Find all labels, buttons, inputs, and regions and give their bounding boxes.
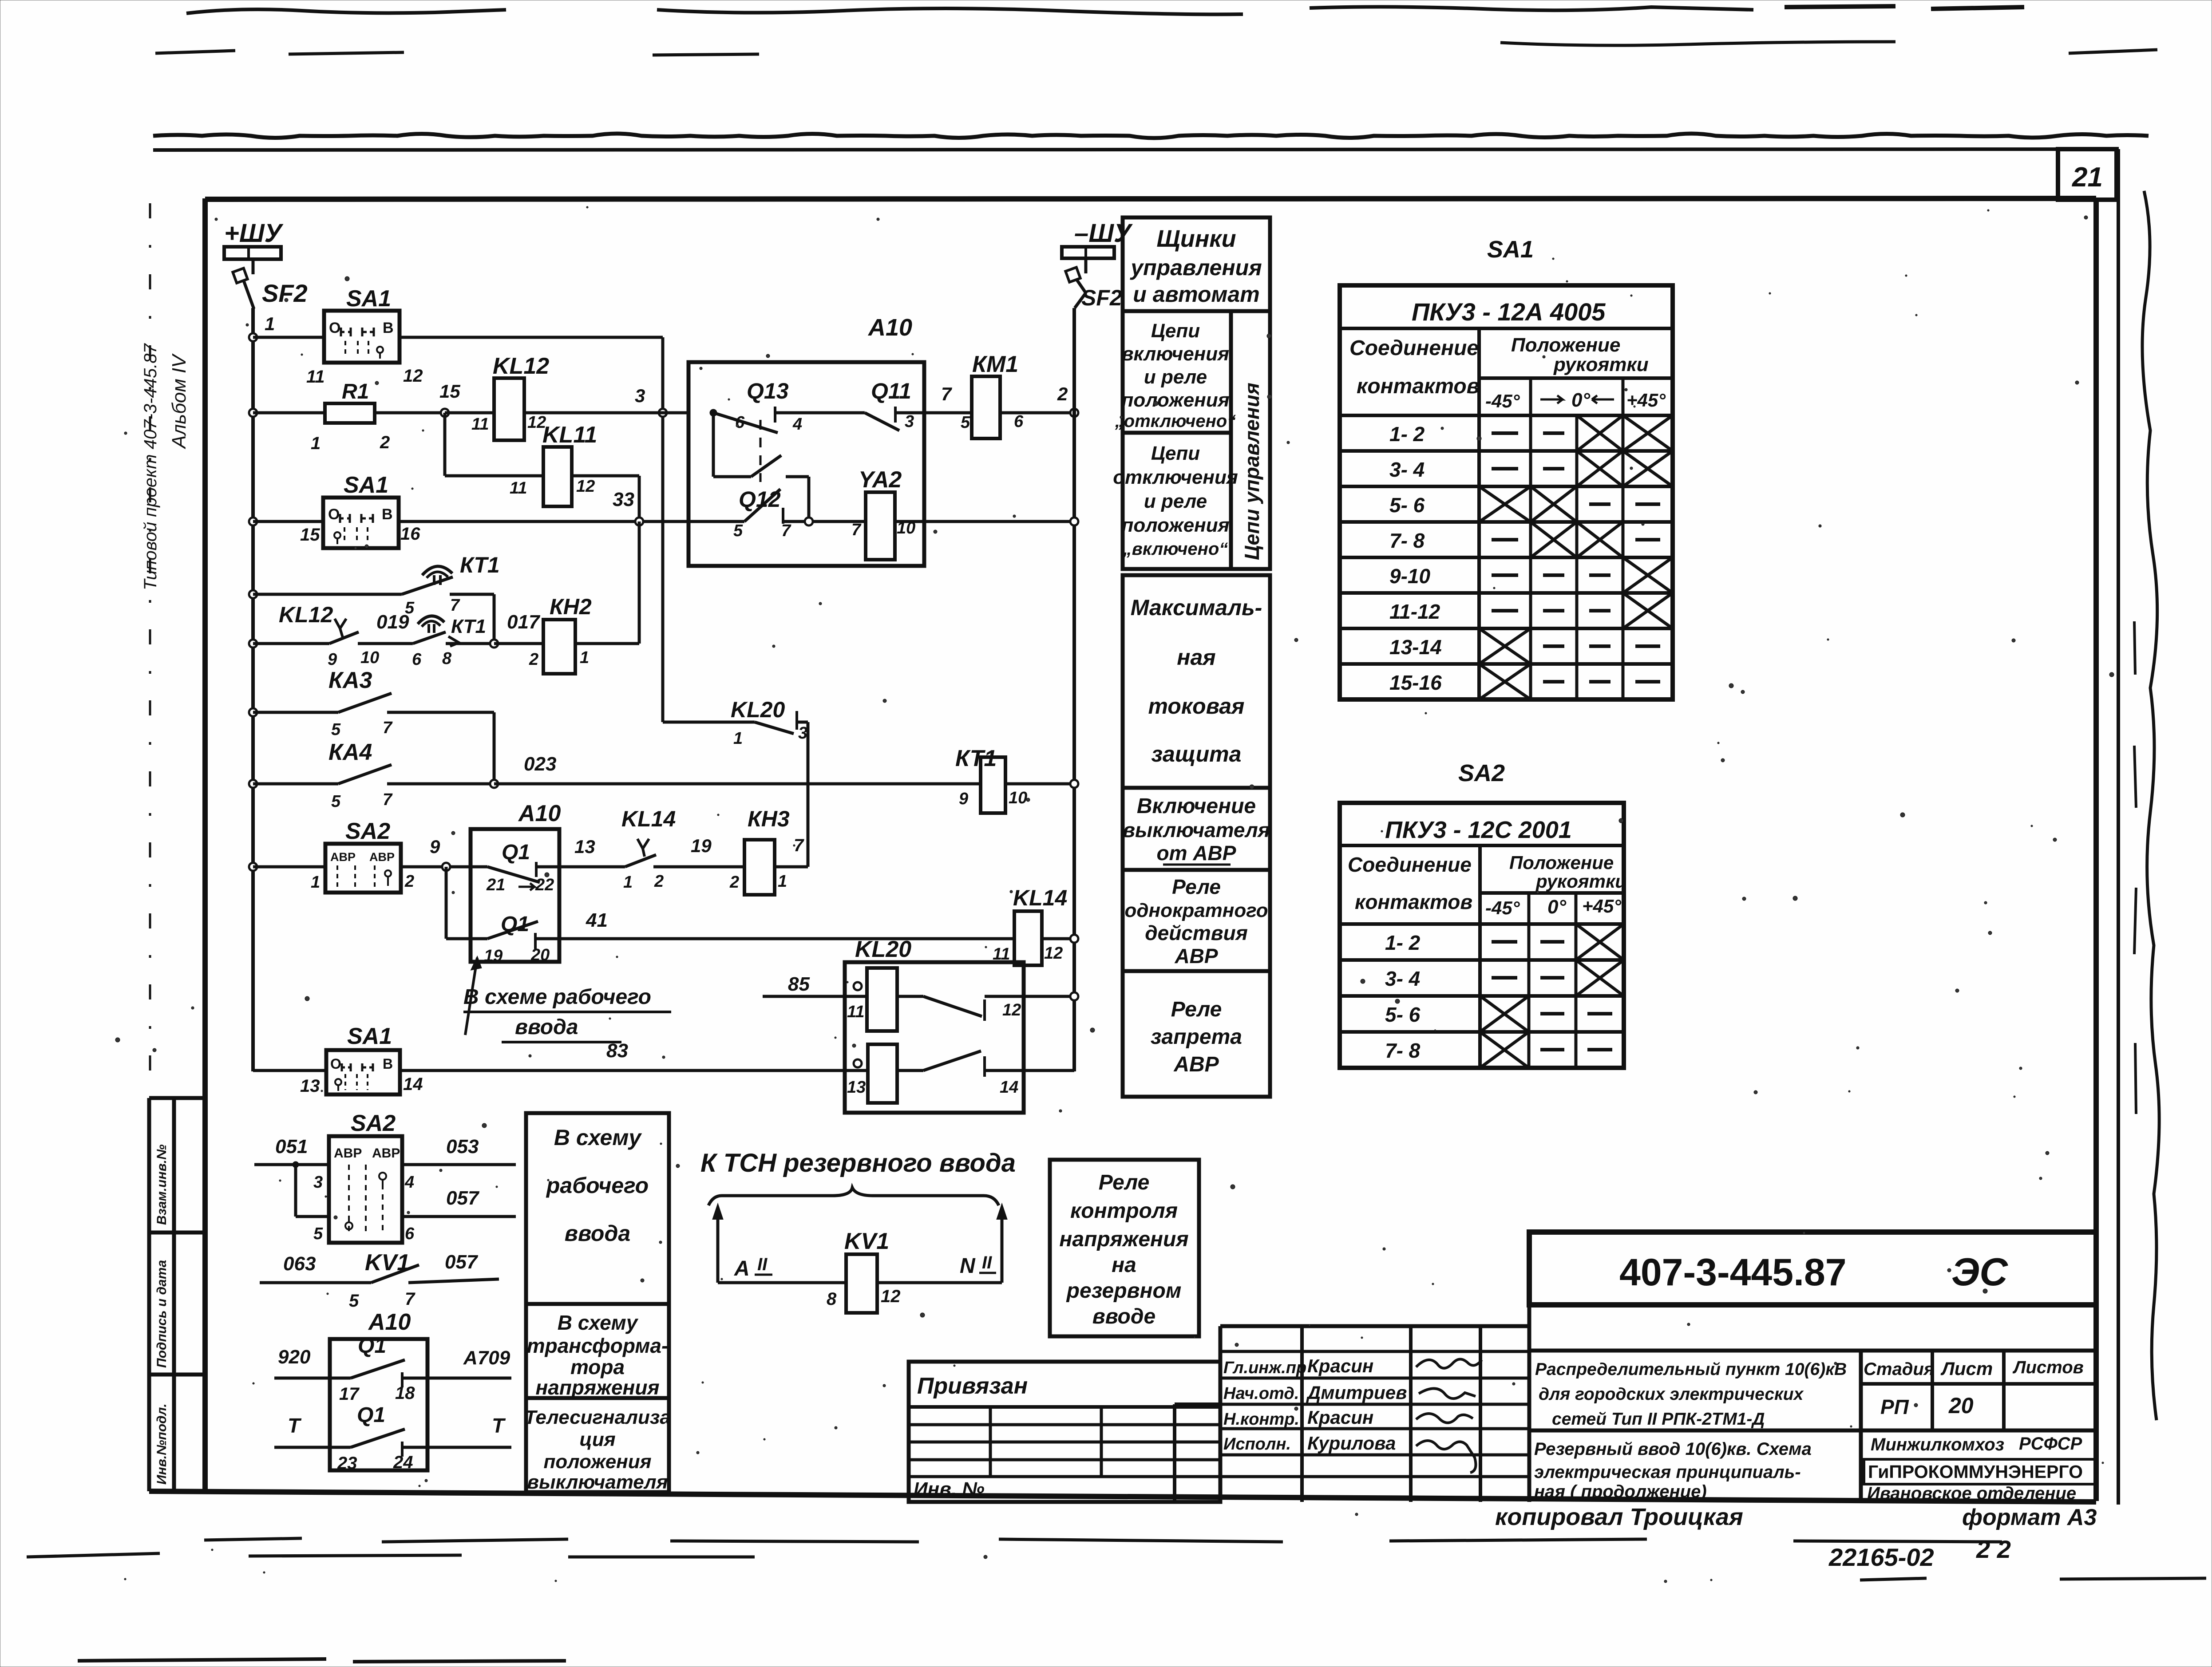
svg-text:КТ1: КТ1: [460, 553, 500, 577]
svg-text:11: 11: [847, 1003, 864, 1021]
unit A10 box second: [471, 829, 559, 962]
svg-text:8: 8: [827, 1289, 837, 1309]
svg-text:+45°: +45°: [1582, 896, 1622, 916]
coil KL20 lower (13): [868, 1044, 897, 1103]
svg-text:19: 19: [484, 947, 503, 965]
svg-text:0°: 0°: [1571, 389, 1590, 411]
wire to KH2: [494, 642, 543, 645]
switch SA1 contacts 11-12: [324, 311, 400, 363]
svg-text:15: 15: [300, 525, 320, 545]
svg-text:18: 18: [395, 1383, 415, 1403]
right bus vertical: [1072, 308, 1076, 1071]
svg-text:II: II: [982, 1253, 992, 1272]
svg-text:Q1: Q1: [358, 1334, 386, 1358]
mid column box Rele zapreta AVR: [1123, 971, 1270, 1097]
svg-text:для городских электрических: для городских электрических: [1539, 1385, 1804, 1404]
svg-text:положения: положения: [543, 1451, 651, 1473]
svg-text:положения: положения: [1121, 389, 1229, 411]
table SA1 row 1-2: [1340, 449, 1673, 453]
svg-text:II: II: [757, 1255, 768, 1274]
svg-text:KL20: KL20: [731, 697, 785, 722]
svg-text:формат А3: формат А3: [1962, 1505, 2097, 1530]
bus bar +ShU: [224, 247, 281, 259]
junction 051 leg: [293, 1161, 299, 1168]
svg-text:13: 13: [300, 1076, 320, 1096]
wire Q13 to Q11: [775, 411, 865, 415]
svg-text:Лист: Лист: [1940, 1358, 1993, 1379]
svg-text:5: 5: [733, 521, 743, 540]
svg-text:Соединение: Соединение: [1348, 853, 1472, 876]
svg-text:2 2: 2 2: [1976, 1535, 2011, 1563]
svg-text:2: 2: [729, 873, 739, 892]
row5 wire to KL12 contact: [253, 642, 329, 645]
svg-text:Цепи управления: Цепи управления: [1240, 383, 1263, 560]
relay coil KL11: [543, 447, 572, 506]
node row8 at bus: [249, 863, 257, 871]
vertical wire KH3/KL20 contact: [807, 722, 810, 867]
svg-text:ПКУ3 - 12А 4005: ПКУ3 - 12А 4005: [1412, 298, 1606, 326]
svg-text:KL12: KL12: [279, 602, 333, 627]
svg-text:Q12: Q12: [739, 487, 781, 512]
svg-text:контактов: контактов: [1355, 890, 1472, 913]
svg-text:Q1: Q1: [502, 841, 530, 864]
svg-text:057: 057: [445, 1251, 479, 1273]
time relay coil KT1: [981, 757, 1005, 813]
svg-text:5: 5: [313, 1225, 323, 1243]
current relay contact KA4: [253, 782, 338, 786]
circuit breaker SF2 right: [1065, 267, 1080, 282]
wire KH3 right to vertical: [775, 865, 808, 869]
svg-text:7- 8: 7- 8: [1385, 1039, 1421, 1062]
indicating relay KH3: [744, 840, 775, 895]
svg-text:12: 12: [403, 366, 423, 386]
mid column box Tsepi vklyucheniya: [1123, 311, 1231, 433]
svg-text:A10: A10: [518, 801, 561, 826]
svg-text:3: 3: [313, 1173, 323, 1192]
svg-text:Реле: Реле: [1099, 1171, 1150, 1194]
table SA1 row 7-8: [1340, 556, 1673, 559]
svg-text:А: А: [734, 1257, 750, 1280]
svg-text:11-12: 11-12: [1389, 600, 1440, 623]
node row7 at bus: [249, 780, 257, 788]
voltage relay coil KV1: [846, 1254, 877, 1313]
wire KM1 to node 2: [1000, 411, 1074, 415]
signatures: [1416, 1359, 1482, 1368]
text box Telesignalizatsiya: [526, 1398, 669, 1492]
leg node9 down to row9: [445, 867, 448, 939]
svg-text:SA2: SA2: [1458, 760, 1505, 786]
node row6 at bus: [249, 708, 257, 716]
svg-text:Минжилкомхоз: Минжилкомхоз: [1871, 1435, 2004, 1454]
svg-text:22: 22: [535, 876, 554, 894]
table SA1: [1340, 285, 1673, 699]
svg-text:5: 5: [349, 1291, 359, 1311]
arrow left A-II: [716, 1213, 720, 1283]
breaker aux contact Q13: [710, 409, 717, 416]
svg-text:7: 7: [794, 836, 804, 855]
svg-text:SA1: SA1: [347, 1023, 392, 1049]
vertical wire row6 to row7: [493, 712, 496, 784]
svg-text:A10: A10: [867, 314, 912, 341]
row11 from bus to SA1 13-14: [253, 1069, 326, 1072]
svg-text:16: 16: [400, 524, 420, 544]
title block privyazan box: [909, 1362, 1220, 1502]
svg-text:Инв. №: Инв. №: [914, 1478, 985, 1500]
wire YA2 to right bus: [895, 520, 1074, 523]
mid column box Tsepi otklyucheniya: [1123, 433, 1231, 569]
svg-text:рукоятки: рукоятки: [1535, 871, 1626, 892]
svg-text:„включено“: „включено“: [1123, 539, 1228, 559]
svg-text:Гл.инж.пр: Гл.инж.пр: [1223, 1359, 1306, 1377]
wire KL12 to A10, net 3: [524, 411, 689, 415]
svg-text:положения: положения: [1121, 514, 1229, 536]
title block empty band: [1529, 1305, 2096, 1351]
svg-text:Соединение: Соединение: [1349, 336, 1479, 360]
svg-text:017: 017: [507, 611, 541, 633]
svg-text:8: 8: [442, 649, 452, 668]
wire -ShU to SF2: [1084, 258, 1088, 273]
vertical wire row4 to row5: [493, 594, 496, 644]
svg-text:Распределительный пункт 10(6)к: Распределительный пункт 10(6)кВ: [1535, 1360, 1847, 1379]
Q13 changeover lower throw: [712, 413, 715, 477]
svg-text:83: 83: [606, 1040, 628, 1062]
svg-text:21: 21: [2072, 162, 2103, 193]
breaker aux contact Q12: [689, 520, 744, 523]
wire from +ShU to SF2: [252, 259, 255, 274]
svg-text:запрета: запрета: [1151, 1025, 1242, 1049]
relay contact KL20 (1-3): [663, 721, 755, 724]
svg-text:9: 9: [328, 650, 337, 669]
svg-text:РСФСР: РСФСР: [2019, 1434, 2082, 1454]
svg-text:трансформа-: трансформа-: [527, 1334, 669, 1357]
wire SA2 to node 9: [401, 865, 471, 869]
table SA2: [1340, 803, 1624, 1068]
svg-text:12: 12: [576, 477, 595, 496]
svg-text:19: 19: [691, 835, 712, 856]
wire net 85: [763, 995, 867, 998]
mid column box Maksimalnaya tokovaya zashchita: [1123, 575, 1270, 788]
svg-text:КН3: КН3: [748, 806, 790, 831]
svg-text:и реле: и реле: [1144, 490, 1207, 512]
svg-text:22165-02: 22165-02: [1828, 1543, 1934, 1571]
svg-text:управления: управления: [1129, 255, 1262, 280]
wire R1 to node 15: [375, 411, 445, 415]
branch to relay KL11: [443, 413, 447, 476]
svg-text:Т: Т: [492, 1414, 506, 1437]
svg-text:О: О: [330, 1056, 341, 1072]
svg-text:ГиПРОКОММУНЭНЕРГО: ГиПРОКОММУНЭНЕРГО: [1868, 1462, 2083, 1482]
svg-text:21: 21: [486, 876, 505, 894]
svg-text:Положение: Положение: [1509, 852, 1614, 873]
svg-text:Листов: Листов: [2012, 1358, 2084, 1377]
unit A10 boundary box: [689, 362, 924, 566]
svg-text:11: 11: [510, 479, 527, 498]
svg-text:7: 7: [405, 1289, 415, 1309]
mid column box Rele odnokratnogo deystviya AVR: [1123, 870, 1270, 971]
mechanical link dashed Q13-Q12: [760, 420, 762, 482]
svg-text:ввода: ввода: [565, 1221, 630, 1246]
svg-text:1: 1: [311, 873, 320, 892]
vertical wire V1 row1 to KL20 contact row: [661, 337, 665, 722]
wire KL11 to row3: [572, 474, 639, 478]
latching relay block KL20: [845, 962, 1024, 1113]
indicating relay KH2: [543, 620, 575, 674]
svg-text:7: 7: [383, 790, 393, 809]
svg-text:КМ1: КМ1: [972, 352, 1018, 377]
svg-text:1: 1: [580, 648, 589, 667]
svg-text:15: 15: [439, 381, 460, 402]
current relay contact KA3: [253, 711, 338, 714]
table SA1 row 15-16: [1340, 698, 1673, 701]
svg-text:КТ1: КТ1: [451, 616, 486, 637]
svg-text:-45°: -45°: [1485, 897, 1520, 918]
contact KL20 lower (14): [897, 1069, 923, 1072]
svg-text:В: В: [383, 1056, 393, 1072]
svg-text:019: 019: [376, 611, 409, 633]
svg-text:Взам.инв.№: Взам.инв.№: [154, 1145, 169, 1225]
svg-text:20: 20: [530, 946, 550, 964]
svg-text:057: 057: [446, 1187, 480, 1209]
junction KL11/KH2 leg with row3: [635, 517, 643, 525]
svg-text:13-14: 13-14: [1389, 636, 1442, 659]
svg-text:однократного: однократного: [1124, 900, 1268, 921]
breaker aux contact Q1 (19-20): [471, 937, 487, 940]
svg-text:KL14: KL14: [1013, 885, 1067, 910]
svg-text:ная: ная: [1177, 645, 1215, 670]
svg-text:R1: R1: [342, 380, 369, 403]
svg-text:920: 920: [278, 1346, 311, 1368]
svg-text:14: 14: [1000, 1078, 1018, 1097]
svg-text:14: 14: [403, 1074, 423, 1094]
svg-text:выключателя: выключателя: [1123, 818, 1270, 841]
svg-text:33: 33: [613, 489, 634, 510]
svg-text:О: О: [329, 320, 340, 336]
wire KL20 to right bus: [1024, 995, 1074, 998]
svg-text:7: 7: [851, 521, 862, 539]
svg-text:Альбом IV: Альбом IV: [168, 353, 190, 450]
svg-text:напряжения: напряжения: [535, 1376, 659, 1399]
switch SA1 contacts 15-16 row3: [253, 520, 323, 523]
svg-text:В: В: [383, 320, 394, 336]
svg-text:24: 24: [393, 1453, 413, 1472]
svg-text:13: 13: [847, 1078, 866, 1097]
svg-text:10: 10: [1009, 789, 1027, 807]
svg-text:KL11: KL11: [542, 422, 597, 448]
svg-text:Включение: Включение: [1137, 794, 1256, 818]
svg-text:выключателя: выключателя: [527, 1471, 668, 1493]
svg-text:4: 4: [404, 1173, 414, 1192]
svg-text:KL14: KL14: [621, 806, 676, 831]
relay coil KL12: [445, 411, 494, 415]
svg-text:6: 6: [735, 413, 745, 432]
svg-text:Красин: Красин: [1307, 1407, 1373, 1428]
svg-text:Резервный ввод 10(6)кв. Схема: Резервный ввод 10(6)кв. Схема: [1534, 1439, 1812, 1459]
svg-text:+ШУ: +ШУ: [224, 219, 284, 248]
svg-text:3- 4: 3- 4: [1389, 458, 1425, 481]
row1 wire SA1 to corner: [400, 336, 663, 339]
trip coil YA2: [866, 492, 895, 560]
junction 023: [490, 780, 498, 788]
svg-text:Реле: Реле: [1171, 998, 1222, 1021]
row2 wire bus to R1: [253, 411, 325, 415]
relay contact KL14 (1-2): [637, 839, 643, 849]
wire KH2 up to row3: [575, 642, 639, 645]
svg-text:3- 4: 3- 4: [1385, 967, 1420, 990]
time relay contact KT1 (6-8): [418, 616, 444, 624]
svg-text:20: 20: [1948, 1393, 1974, 1418]
svg-text:1- 2: 1- 2: [1385, 931, 1421, 954]
wire TSN: [718, 1281, 846, 1284]
svg-text:В схему: В схему: [554, 1125, 642, 1150]
bus bar -ShU: [1062, 247, 1114, 258]
svg-text:АВР: АВР: [330, 850, 356, 864]
svg-text:и реле: и реле: [1144, 366, 1207, 388]
title block stadiya values: [1931, 1384, 1934, 1430]
svg-text:Стадия: Стадия: [1864, 1359, 1934, 1379]
svg-text:Курилова: Курилова: [1307, 1433, 1396, 1454]
coil KL20 upper (11): [867, 968, 897, 1031]
svg-text:защита: защита: [1152, 742, 1242, 766]
svg-text:2: 2: [380, 433, 390, 452]
svg-text:В схему: В схему: [558, 1311, 639, 1334]
junction Q13 throw with row3: [805, 517, 813, 525]
svg-text:Т: Т: [288, 1414, 302, 1437]
table SA1 row 11-12: [1340, 627, 1673, 630]
svg-text:SF2: SF2: [262, 279, 308, 307]
svg-text:YA2: YA2: [859, 467, 902, 493]
svg-text:Q11: Q11: [871, 379, 911, 403]
title block organization cell: [1859, 1430, 1863, 1502]
arrow right N-II: [1001, 1213, 1004, 1283]
table SA1 row 3-4: [1340, 485, 1673, 488]
svg-text:3: 3: [905, 412, 914, 431]
wire net 41 to KL14 coil: [535, 937, 1014, 940]
svg-text:ция: ция: [579, 1429, 615, 1450]
svg-text:KL12: KL12: [493, 353, 549, 379]
svg-text:12: 12: [881, 1287, 901, 1306]
svg-text:АВР: АВР: [372, 1146, 400, 1161]
svg-text:В схеме рабочего: В схеме рабочего: [463, 985, 651, 1009]
svg-text:1: 1: [311, 434, 321, 453]
wire net 051: [254, 1163, 329, 1166]
svg-text:АВР: АВР: [369, 850, 395, 864]
svg-text:10: 10: [360, 648, 379, 667]
svg-text:12: 12: [1002, 1001, 1021, 1019]
svg-text:6: 6: [405, 1225, 415, 1243]
svg-text:SA2: SA2: [345, 818, 390, 844]
node 9: [442, 863, 450, 871]
wire KT1 contact to corner: [450, 593, 494, 596]
svg-text:3: 3: [798, 724, 807, 743]
svg-text:SA1: SA1: [346, 286, 391, 312]
svg-text:A10: A10: [368, 1309, 411, 1335]
switch SA1 contacts 13-14: [326, 1050, 400, 1094]
svg-text:2: 2: [529, 650, 538, 669]
svg-text:В: В: [382, 506, 393, 523]
wire KT1 coil to right bus: [1005, 782, 1074, 786]
svg-text:КН2: КН2: [550, 594, 592, 619]
table SA1 row 13-14: [1340, 662, 1673, 666]
wire Q12 to YA2: [783, 520, 866, 523]
svg-text:Q1: Q1: [501, 913, 529, 936]
row4 wire to KT1 contact: [253, 593, 402, 596]
text box Rele kontrolya napryazheniya: [1050, 1160, 1199, 1336]
breaker aux contact Q1 (23-24): [274, 1446, 351, 1449]
svg-text:17: 17: [339, 1384, 360, 1404]
svg-text:на: на: [1112, 1253, 1136, 1277]
contactor coil KM1: [972, 376, 1000, 438]
junction 017: [446, 642, 494, 645]
breaker aux contact Q1 (17-18): [274, 1377, 351, 1380]
svg-text:051: 051: [275, 1136, 308, 1157]
node row2 at bus: [249, 409, 257, 417]
svg-text:85: 85: [788, 973, 810, 995]
svg-text:7- 8: 7- 8: [1389, 529, 1425, 552]
text box V skhemu transformatora: [526, 1304, 669, 1398]
left margin stamp column: [147, 1098, 151, 1491]
svg-text:Привязан: Привязан: [917, 1373, 1028, 1399]
svg-text:ПКУ3 - 12С 2001: ПКУ3 - 12С 2001: [1385, 817, 1572, 843]
svg-text:Типовой проект 407-3-445.87: Типовой проект 407-3-445.87: [141, 343, 160, 590]
node row4 at bus: [249, 590, 257, 598]
svg-text:063: 063: [283, 1253, 316, 1275]
node 2: [1070, 409, 1078, 417]
svg-text:электрическая принципиаль-: электрическая принципиаль-: [1534, 1462, 1801, 1482]
svg-text:0°: 0°: [1547, 896, 1566, 918]
svg-text:сетей Тип II РПК-2ТМ1-Д: сетей Тип II РПК-2ТМ1-Д: [1552, 1410, 1765, 1429]
svg-text:КТ1: КТ1: [955, 746, 997, 771]
svg-text:7: 7: [941, 383, 952, 404]
table SA2 row 7-8: [1340, 1066, 1624, 1070]
svg-text:1: 1: [623, 873, 633, 892]
table SA2 row 5-6: [1340, 1030, 1624, 1034]
svg-text:3: 3: [635, 385, 645, 406]
svg-text:„отключено“: „отключено“: [1115, 411, 1236, 431]
breaker aux contact Q1 (21-22): [471, 865, 487, 869]
svg-text:тора: тора: [570, 1355, 625, 1379]
svg-text:вводе: вводе: [1092, 1305, 1155, 1328]
brace: [708, 1188, 999, 1205]
svg-text:РП: РП: [1880, 1395, 1909, 1418]
wire net 053: [402, 1163, 516, 1166]
svg-text:Инв.№подл.: Инв.№подл.: [154, 1403, 169, 1485]
svg-text:9-10: 9-10: [1389, 565, 1430, 588]
svg-text:ЭС: ЭС: [1951, 1250, 2008, 1294]
mid column box Shinki upravleniya: [1123, 217, 1270, 311]
svg-text:5: 5: [961, 413, 970, 432]
svg-text:токовая: токовая: [1148, 694, 1244, 719]
row7 wire to KT1 coil: [494, 782, 981, 786]
svg-text:КА4: КА4: [328, 739, 372, 765]
table SA1 row 5-6: [1340, 520, 1673, 524]
svg-text:13: 13: [574, 836, 595, 857]
svg-text:Ивановское отделение: Ивановское отделение: [1867, 1484, 2076, 1503]
node 15: [441, 409, 449, 417]
svg-text:4: 4: [792, 415, 802, 434]
svg-text:7: 7: [450, 596, 460, 615]
svg-text:копировал Троицкая: копировал Троицкая: [1495, 1504, 1743, 1530]
row1 wire to SA1: [253, 336, 324, 339]
svg-text:11: 11: [306, 367, 325, 387]
svg-text:А709: А709: [463, 1347, 510, 1369]
svg-text:Подпись и дата: Подпись и дата: [154, 1260, 169, 1368]
table SA2 row 3-4: [1340, 994, 1624, 998]
svg-text:КА3: КА3: [328, 668, 372, 693]
svg-text:включения: включения: [1122, 343, 1229, 365]
text column V skhemu rabochego vvoda: [526, 1113, 669, 1304]
svg-text:KL20: KL20: [855, 936, 911, 962]
node row5 at bus: [249, 640, 257, 648]
